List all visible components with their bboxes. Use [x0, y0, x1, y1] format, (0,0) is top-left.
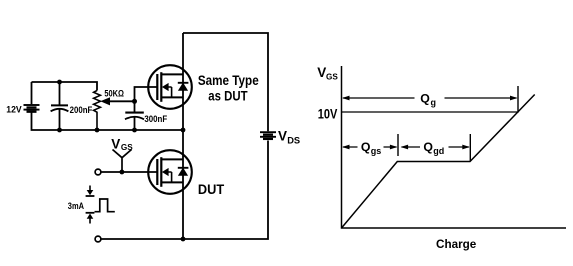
- svg-text:Q: Q: [361, 140, 371, 154]
- svg-text:gs: gs: [371, 146, 382, 156]
- svg-text:GS: GS: [121, 143, 133, 152]
- svg-text:DS: DS: [287, 136, 300, 146]
- svg-text:V: V: [111, 137, 120, 152]
- svg-text:12V: 12V: [6, 104, 22, 115]
- svg-text:10V: 10V: [318, 107, 338, 122]
- svg-text:Same Type: Same Type: [198, 73, 259, 88]
- svg-text:200nF: 200nF: [70, 104, 93, 115]
- svg-text:V: V: [278, 129, 287, 144]
- svg-text:Charge: Charge: [436, 237, 476, 251]
- svg-text:DUT: DUT: [198, 182, 225, 197]
- svg-text:V: V: [317, 65, 326, 80]
- svg-text:g: g: [431, 98, 437, 108]
- svg-text:3mA: 3mA: [68, 201, 85, 211]
- svg-text:Q: Q: [420, 92, 430, 106]
- svg-text:300nF: 300nF: [144, 113, 167, 124]
- svg-text:GS: GS: [326, 73, 338, 82]
- svg-text:as DUT: as DUT: [208, 88, 248, 103]
- svg-text:Q: Q: [423, 140, 433, 154]
- svg-text:gd: gd: [433, 146, 444, 156]
- svg-text:50KΩ: 50KΩ: [104, 88, 124, 99]
